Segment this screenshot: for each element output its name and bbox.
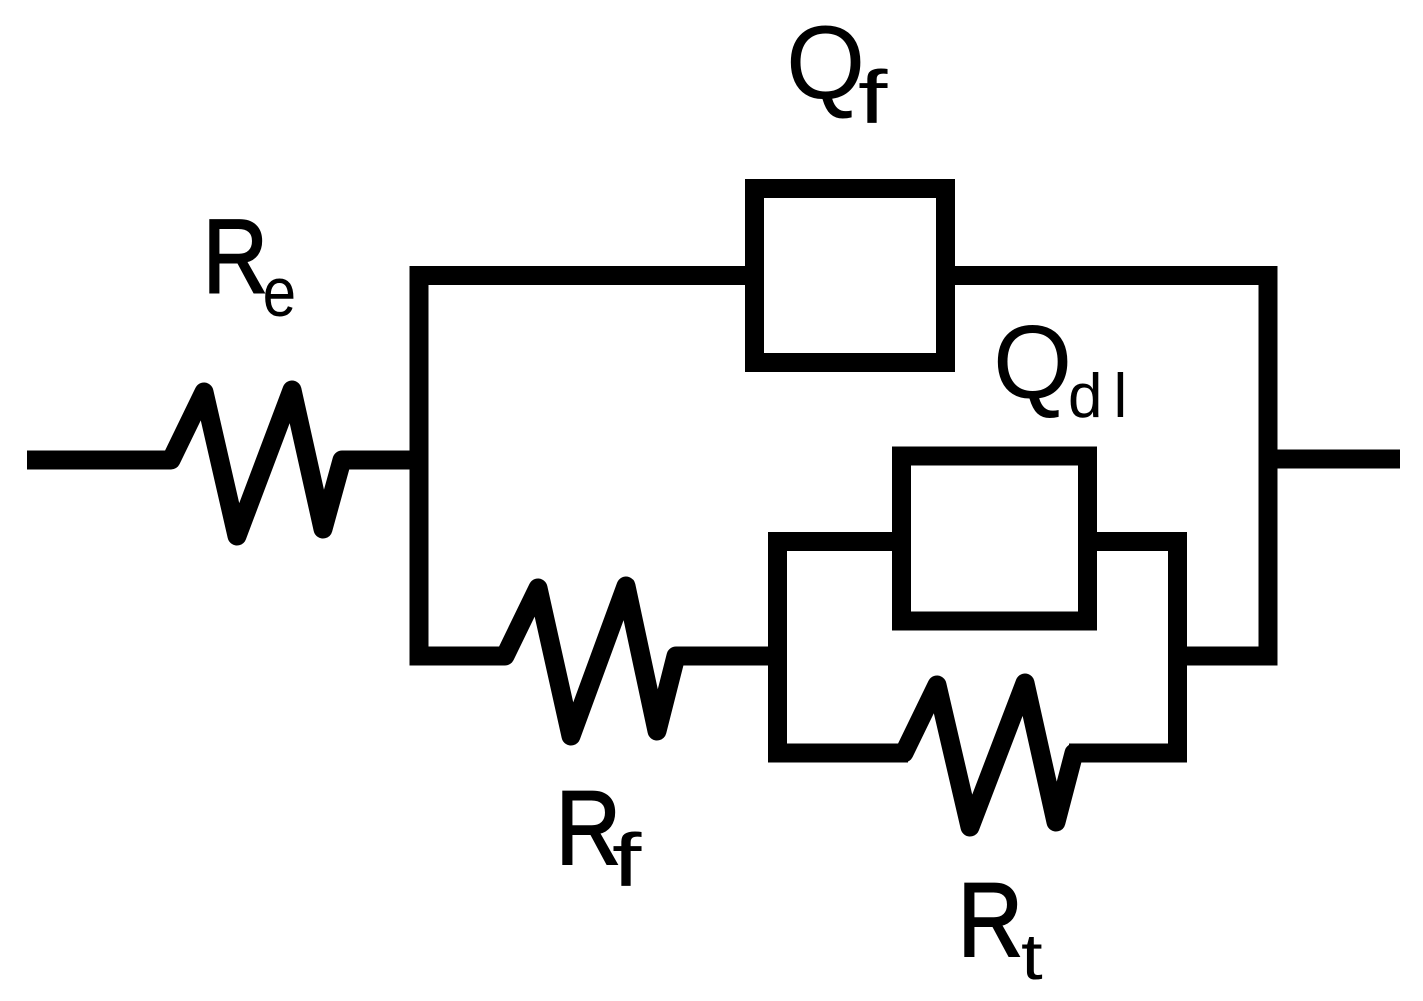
node: outer parallel loop (left/top/right sides and bottom stubs)	[419, 276, 1268, 657]
svg-text:Q: Q	[993, 303, 1072, 421]
svg-text:R: R	[958, 861, 1023, 979]
resistor Rf	[497, 586, 688, 736]
node: nested parallel loop (sides and bottom stubs)	[778, 542, 1178, 754]
CPE box Qdl	[902, 456, 1088, 621]
resistor Re	[160, 390, 352, 536]
svg-text:R: R	[203, 197, 268, 315]
svg-text:t: t	[1021, 921, 1043, 993]
wire: right output lead	[1268, 450, 1400, 469]
wire: Rf to nested loop	[680, 647, 786, 666]
wire: Re to left node	[345, 451, 428, 470]
svg-text:e: e	[263, 253, 296, 331]
svg-text:f: f	[612, 819, 642, 902]
svg-text:dl: dl	[1068, 362, 1138, 431]
wire: left input lead	[27, 451, 168, 470]
svg-text:Q: Q	[786, 3, 865, 121]
svg-text:f: f	[858, 56, 888, 139]
resistor Rt	[897, 683, 1080, 827]
CPE box Qf	[755, 189, 946, 363]
